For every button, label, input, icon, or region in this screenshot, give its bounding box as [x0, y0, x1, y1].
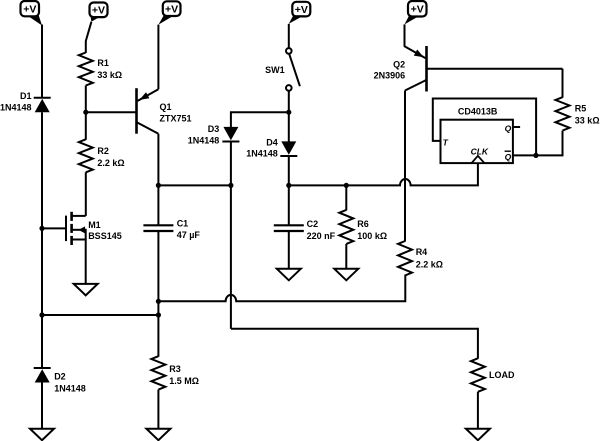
resistor R1 [79, 53, 93, 86]
wire [477, 392, 479, 430]
wire [288, 91, 290, 142]
capacitor C1 [143, 225, 173, 231]
ground [74, 284, 98, 296]
wire (Q1 base) [86, 111, 136, 113]
resistor R6 [339, 210, 353, 244]
wire (left rail tie) [42, 314, 158, 316]
ground [334, 269, 358, 281]
svg-text:2N3906: 2N3906 [374, 71, 406, 81]
pin Q-bar label [505, 151, 512, 162]
diode D2 [34, 368, 51, 383]
junction (M1 gate tap) [39, 226, 44, 231]
svg-text:1N4148: 1N4148 [188, 136, 220, 146]
wire [86, 22, 92, 53]
svg-text:Q: Q [505, 152, 512, 162]
wire [231, 112, 289, 127]
wire [85, 240, 87, 285]
junction (left-rail tie) [156, 312, 161, 317]
svg-text:R4: R4 [416, 247, 428, 257]
wire [41, 383, 43, 430]
junction (bottom-left node) [39, 312, 44, 317]
svg-text:D3: D3 [208, 124, 220, 134]
svg-text:2.2 kΩ: 2.2 kΩ [416, 259, 443, 269]
junction [228, 183, 233, 188]
junction (SW1/D3/D4) [286, 110, 291, 115]
svg-text:CD4013B: CD4013B [458, 107, 498, 117]
transistor M1 [66, 212, 86, 245]
svg-text:1N4148: 1N4148 [54, 384, 86, 394]
wire [85, 172, 87, 216]
transistor Q2 [405, 46, 427, 92]
svg-text:Q1: Q1 [160, 102, 172, 112]
junction (clock node) [286, 183, 291, 188]
wire (C1 bottom to R4) [158, 275, 405, 302]
wire [562, 69, 564, 98]
wire (node A segment) [158, 184, 231, 186]
wire (Q stub) [513, 126, 520, 128]
switch SW1 [286, 48, 300, 91]
ground [30, 429, 54, 441]
wire [157, 134, 159, 226]
resistor R2 [79, 139, 93, 172]
svg-text:1N4148: 1N4148 [0, 102, 32, 112]
transistor Q1 [137, 88, 159, 134]
wire (Q-bar to T feedback) [433, 99, 536, 156]
wire [157, 390, 159, 430]
wire [513, 131, 563, 156]
wire [42, 227, 66, 229]
wire [157, 25, 159, 90]
power flag +V (SW1 rail) [289, 2, 311, 24]
svg-text:R5: R5 [575, 104, 587, 114]
svg-text:BSS145: BSS145 [88, 231, 122, 241]
flip-flop U1 CD4013B [441, 120, 513, 163]
svg-text:47 µF: 47 µF [177, 230, 201, 240]
svg-text:D1: D1 [20, 91, 32, 101]
power flag +V (Q1 rail) [159, 1, 181, 24]
svg-text:LOAD: LOAD [489, 370, 515, 380]
capacitor C2 [274, 225, 304, 231]
svg-text:33 kΩ: 33 kΩ [97, 70, 122, 80]
svg-text:Q2: Q2 [393, 59, 405, 69]
resistor LOAD [471, 358, 485, 392]
ground [466, 429, 490, 441]
svg-text:R6: R6 [357, 219, 369, 229]
resistor R4 [398, 241, 412, 276]
wire [230, 142, 232, 329]
ground [277, 269, 301, 281]
wire [157, 231, 159, 357]
junction (Q1 collector node) [156, 183, 161, 188]
resistor R5 [556, 97, 570, 130]
diode D3 [222, 127, 239, 142]
wire [41, 112, 43, 368]
ground [146, 429, 170, 441]
power flag +V (Q2 rail) [405, 1, 427, 24]
wire [345, 185, 347, 210]
svg-text:33 kΩ: 33 kΩ [575, 116, 600, 126]
wire [288, 231, 290, 269]
svg-text:2.2 kΩ: 2.2 kΩ [97, 158, 124, 168]
svg-text:R2: R2 [97, 146, 109, 156]
svg-text:100 kΩ: 100 kΩ [357, 231, 387, 241]
resistor R3 [151, 356, 165, 389]
wire [288, 156, 290, 225]
svg-text:+V: +V [92, 5, 105, 17]
svg-text:R3: R3 [169, 364, 181, 374]
wire [41, 25, 43, 99]
svg-text:CLK: CLK [471, 147, 489, 157]
svg-text:1.5 MΩ: 1.5 MΩ [169, 376, 199, 386]
svg-text:C2: C2 [307, 219, 319, 229]
wire [345, 244, 347, 270]
diode D1 [34, 98, 51, 113]
clock edge indicator [472, 156, 485, 163]
power flag +V (R1 rail) [90, 3, 108, 22]
wire [288, 24, 290, 49]
svg-text:+V: +V [411, 4, 424, 16]
svg-text:1N4148: 1N4148 [246, 149, 278, 159]
svg-text:220 nF: 220 nF [307, 231, 336, 241]
svg-text:D2: D2 [54, 372, 66, 382]
wire (clock node) [289, 163, 478, 186]
svg-text:+V: +V [23, 4, 36, 16]
junction (R6 tap) [344, 183, 349, 188]
svg-text:D4: D4 [266, 138, 278, 148]
junction (feedback/Q-bar) [533, 153, 538, 158]
junction (R1/R2/Q1 base) [83, 110, 88, 115]
wire (Q2 collector) [404, 91, 406, 242]
wire [85, 86, 87, 140]
svg-text:SW1: SW1 [265, 65, 285, 75]
wire [404, 24, 406, 46]
junction (C1 bottom node) [156, 299, 161, 304]
power flag +V (left rail) [21, 1, 43, 26]
svg-text:+V: +V [165, 4, 178, 16]
svg-text:Q: Q [505, 123, 512, 133]
diode D4 [280, 141, 297, 156]
wire (Q2 base) [427, 68, 563, 70]
svg-text:M1: M1 [88, 220, 101, 230]
svg-text:T: T [443, 138, 449, 148]
svg-text:C1: C1 [177, 219, 189, 229]
svg-text:+V: +V [295, 4, 308, 16]
svg-text:ZTX751: ZTX751 [160, 114, 192, 124]
wire (load line) [231, 329, 478, 359]
svg-text:R1: R1 [97, 58, 109, 68]
